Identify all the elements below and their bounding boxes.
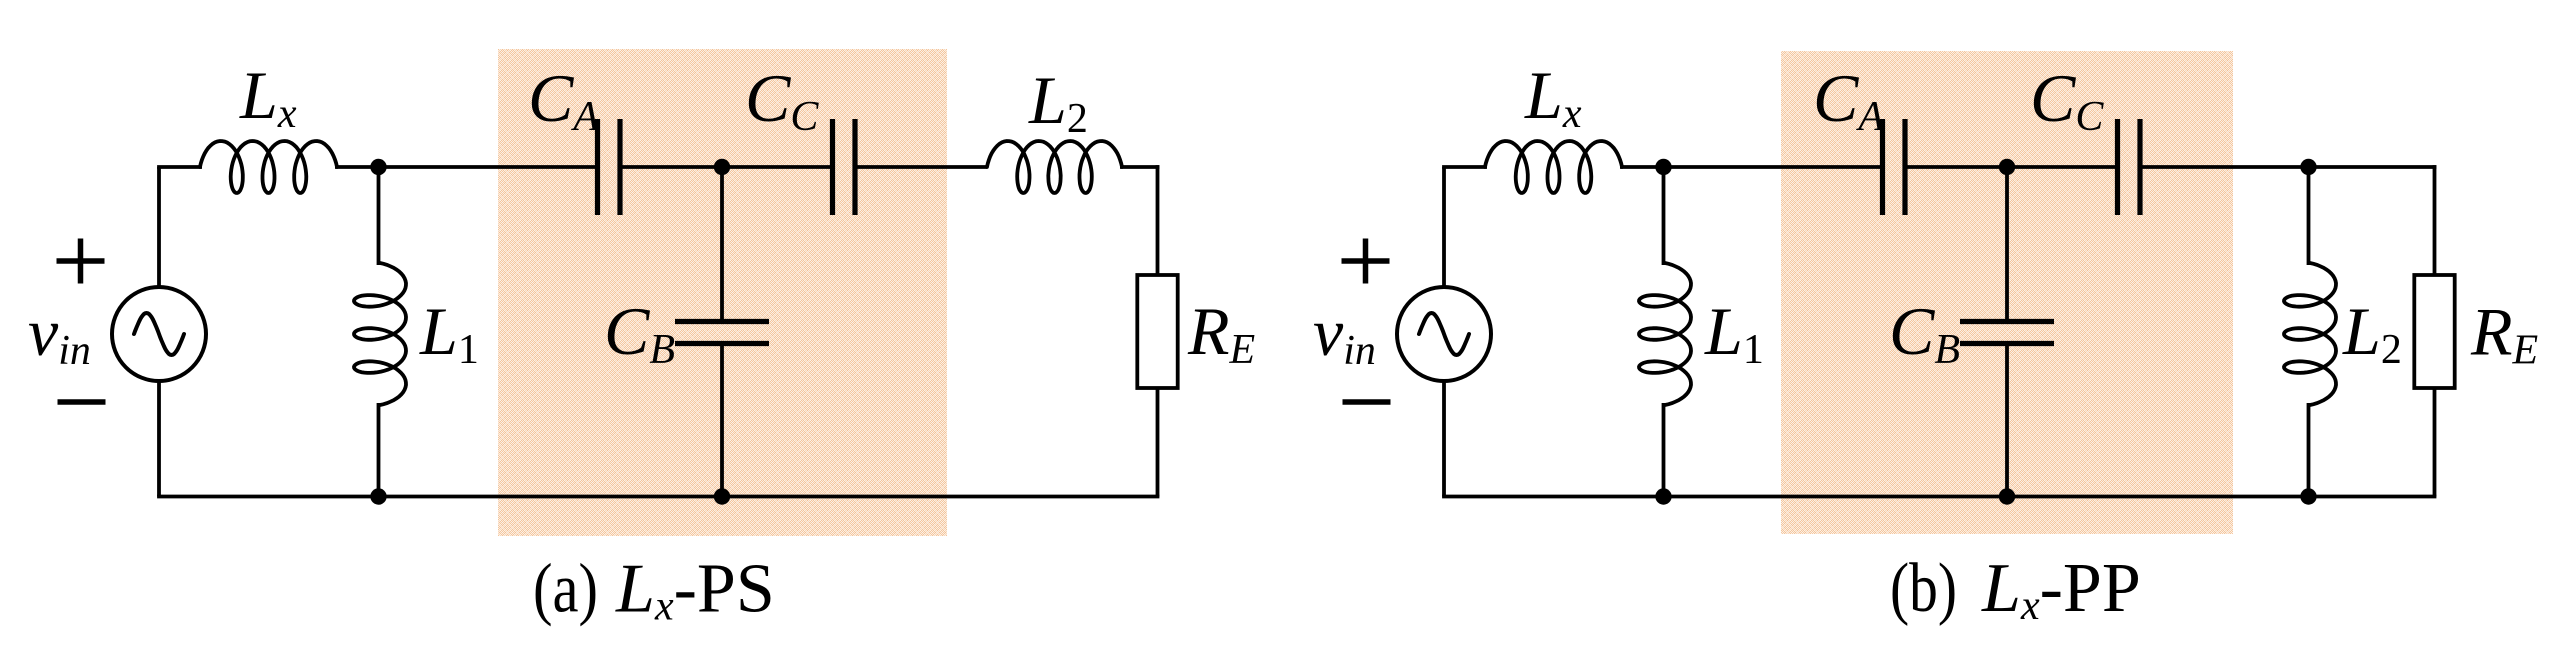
svg-text:Lx-PS: Lx-PS: [615, 551, 775, 630]
svg-text:(a): (a): [533, 551, 598, 628]
svg-text:(b): (b): [1890, 550, 1957, 627]
svg-text:Lx-PP: Lx-PP: [1981, 550, 2141, 629]
